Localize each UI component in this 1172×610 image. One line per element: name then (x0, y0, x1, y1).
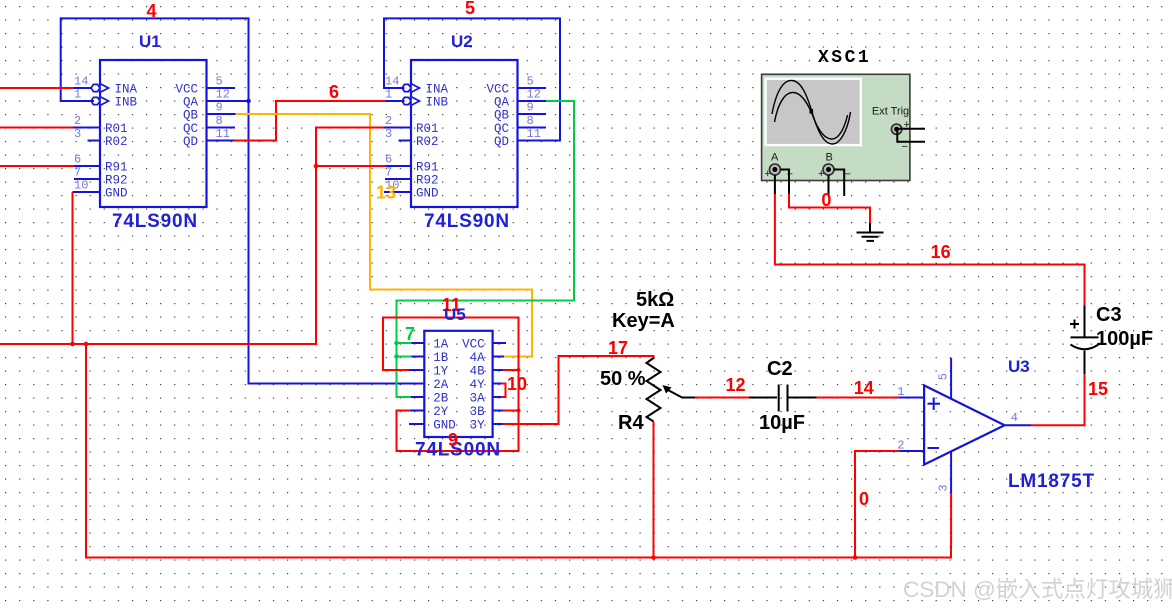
op-amp U3 pin 2 stub (897, 439, 924, 453)
net label 13 (376, 183, 396, 203)
svg-text:QD: QD (183, 135, 198, 149)
svg-text:74LS90N: 74LS90N (424, 211, 510, 232)
svg-text:C2: C2 (767, 358, 793, 380)
svg-text:11: 11 (216, 127, 230, 141)
svg-text:4: 4 (1011, 411, 1018, 425)
svg-text:2B: 2B (433, 392, 449, 406)
svg-text:INB: INB (115, 96, 138, 110)
pin stubs U5 left (409, 343, 424, 424)
wire net 7 (green, U2 QA to U5 1A 1B 2B) (397, 101, 575, 397)
wire net 5 (U2 QD feedback to INA) (384, 18, 560, 140)
svg-text:3A: 3A (470, 392, 486, 406)
svg-text:R4: R4 (618, 412, 644, 434)
net label 17 (608, 338, 628, 358)
svg-text:0: 0 (821, 190, 831, 210)
watermark CSDN (903, 577, 1172, 602)
svg-text:16: 16 (931, 242, 951, 262)
svg-text:R01: R01 (105, 122, 128, 136)
svg-text:2Y: 2Y (433, 405, 449, 419)
svg-text:74LS90N: 74LS90N (112, 211, 198, 232)
svg-text:QA: QA (183, 96, 199, 110)
oscilloscope terminal B (818, 152, 851, 181)
value 50% of R4 (600, 368, 646, 390)
wire R4 bottom to ground rail (653, 422, 655, 558)
value 74LS90N of U1 (112, 211, 198, 232)
svg-text:C3: C3 (1096, 304, 1122, 326)
op-amp U3 triangle (924, 385, 1005, 464)
svg-text:14: 14 (854, 378, 874, 398)
wire to U1 R01 from left edge (0, 127, 73, 129)
svg-text:R02: R02 (416, 135, 439, 149)
wire net 13 (orange, U1 QB to U5 4A) (236, 114, 533, 357)
junction node U2 R91 branch (314, 164, 319, 169)
svg-text:Ext Trig: Ext Trig (872, 106, 909, 118)
svg-text:QB: QB (494, 109, 510, 123)
svg-text:3: 3 (385, 127, 392, 141)
svg-text:QA: QA (494, 96, 510, 110)
svg-text:6: 6 (329, 82, 339, 102)
value LM1875T of U3 (1008, 471, 1095, 492)
svg-text:2: 2 (74, 114, 81, 128)
potentiometer R4 wiper arrow (663, 385, 696, 398)
label U3 (1008, 357, 1030, 376)
net label 6 (329, 82, 339, 102)
junction nodes net 11 (517, 368, 521, 413)
svg-text:GND: GND (416, 187, 439, 201)
svg-text:1: 1 (385, 88, 392, 102)
svg-text:7: 7 (74, 166, 81, 180)
net label 10 (507, 374, 527, 394)
svg-text:4B: 4B (470, 365, 486, 379)
value 5kOhm of R4 (636, 289, 674, 311)
value 74LS00N of U5 (415, 440, 501, 461)
svg-text:VCC: VCC (175, 83, 198, 97)
svg-text:0: 0 (859, 489, 869, 509)
junction node net4 QA (246, 99, 251, 104)
svg-text:A: A (771, 152, 779, 164)
svg-text:3B: 3B (470, 405, 486, 419)
svg-text:4: 4 (147, 1, 157, 21)
wire scope B minus stub (834, 170, 844, 197)
wire scope B plus stub (828, 175, 830, 196)
wire net 10 (U5 4Y to 3A) (501, 384, 506, 398)
svg-text:+: + (818, 168, 824, 180)
op-amp U3 pin 4 stub (1005, 411, 1032, 425)
svg-text:50 %: 50 % (600, 368, 646, 390)
svg-text:U3: U3 (1008, 357, 1030, 376)
svg-text:B: B (826, 152, 833, 164)
net label 9 (448, 430, 458, 450)
svg-text:12: 12 (527, 88, 541, 102)
svg-text:9: 9 (448, 430, 458, 450)
net label 7 (405, 324, 415, 344)
label U2 (451, 32, 473, 51)
svg-text:9: 9 (527, 101, 534, 115)
svg-text:U5: U5 (444, 305, 466, 324)
svg-text:5: 5 (465, 0, 475, 18)
svg-text:11: 11 (527, 127, 541, 141)
op-amp U3 pin 5 stub (936, 358, 951, 399)
pin stubs U2 right (518, 88, 547, 128)
svg-text:U1: U1 (139, 32, 161, 51)
svg-text:8: 8 (527, 114, 534, 128)
wire net 11 (U5 1Y 4B 3B 2Y loop) (383, 318, 519, 452)
svg-text:9: 9 (216, 101, 223, 115)
label U5 (444, 305, 466, 324)
ground symbol (857, 223, 884, 241)
wire Ext Trig stubs (897, 129, 925, 142)
net label 12 (726, 375, 746, 395)
label XSC1 (818, 48, 871, 68)
label R4 (618, 412, 644, 434)
wire net 16 (scope A+ to C3 top) (775, 194, 1085, 305)
svg-text:Key=A: Key=A (612, 310, 675, 332)
junction nodes on rail (70, 342, 88, 347)
value 74LS90N of U2 (424, 211, 510, 232)
svg-text:GND: GND (105, 187, 128, 201)
net label 15 (1088, 379, 1108, 399)
wire net 6 (U1 QD to U2 INB) (234, 101, 405, 141)
svg-text:R02: R02 (105, 135, 128, 149)
svg-text:6: 6 (385, 153, 392, 167)
potentiometer R4 zigzag (647, 358, 661, 422)
svg-text:4A: 4A (470, 351, 486, 365)
value Key=A of R4 (612, 310, 675, 332)
wire scope A plus lead (774, 175, 776, 194)
svg-text:CSDN @嵌入式点灯攻城狮: CSDN @嵌入式点灯攻城狮 (903, 577, 1172, 602)
svg-text:12: 12 (726, 375, 746, 395)
net label 11 (442, 295, 461, 315)
op-amp U3 pin 1 stub (897, 385, 924, 399)
svg-text:10: 10 (74, 179, 88, 193)
svg-text:5: 5 (216, 75, 223, 89)
svg-text:100µF: 100µF (1096, 328, 1153, 350)
wire scope A minus to ground (781, 170, 871, 224)
junction node net 0 rail (853, 555, 858, 560)
junction node R4 bottom rail (651, 555, 656, 560)
svg-text:2: 2 (385, 114, 392, 128)
svg-text:R91: R91 (105, 161, 128, 175)
pin stubs U5 right (493, 343, 506, 424)
svg-text:+: + (765, 168, 771, 180)
svg-text:VCC: VCC (486, 83, 509, 97)
svg-text:XSC1: XSC1 (818, 48, 871, 68)
junction nodes net 7 (394, 341, 399, 359)
svg-text:13: 13 (376, 183, 396, 203)
svg-text:1A: 1A (433, 338, 449, 352)
wire net 14 (C2 to U3 pin1) (788, 397, 899, 399)
svg-text:INA: INA (115, 83, 138, 97)
wire net 12 (R4 wiper to C2) (695, 397, 777, 399)
svg-text:5: 5 (527, 75, 534, 89)
svg-text:R92: R92 (416, 174, 439, 188)
IC U1 74LS90N body (74, 60, 230, 207)
wire U1 GND to rail (72, 192, 74, 344)
svg-text:14: 14 (385, 75, 399, 89)
svg-text:R92: R92 (105, 174, 128, 188)
svg-text:INB: INB (426, 96, 449, 110)
svg-text:QC: QC (494, 122, 509, 136)
svg-text:QC: QC (183, 122, 198, 136)
oscilloscope Ext Trig terminal (872, 106, 910, 154)
value 10uF of C2 (759, 412, 805, 434)
wire reset rail to U2 R01/R91 (0, 128, 386, 345)
svg-text:U2: U2 (451, 32, 473, 51)
oscilloscope XSC1 body (762, 74, 910, 180)
label C2 (767, 358, 793, 380)
svg-text:2A: 2A (433, 378, 449, 392)
capacitor C2 (779, 385, 788, 412)
svg-text:LM1875T: LM1875T (1008, 471, 1095, 492)
wire net 4 (U1 QA feedback to INB and to U5 2A) (61, 18, 425, 383)
oscilloscope screen waveform (772, 80, 851, 144)
svg-text:1B: 1B (433, 351, 449, 365)
svg-text:1: 1 (897, 385, 904, 399)
svg-text:5: 5 (936, 373, 950, 380)
pin stubs U1 right (207, 88, 236, 141)
svg-text:10µF: 10µF (759, 412, 805, 434)
value 100uF of C3 (1096, 328, 1153, 350)
capacitor C3 polarized (1070, 305, 1099, 374)
IC U5 74LS00N body (424, 331, 492, 437)
svg-text:8: 8 (216, 114, 223, 128)
wire net 0 (U3 pin2 to ground rail) (855, 451, 899, 558)
svg-text:3Y: 3Y (470, 419, 486, 433)
net label 16 (931, 242, 951, 262)
svg-text:5kΩ: 5kΩ (636, 289, 674, 311)
net label 0 at scope (821, 190, 831, 210)
pin stubs U1 left (73, 88, 101, 192)
svg-text:15: 15 (1088, 379, 1108, 399)
svg-text:QB: QB (183, 109, 199, 123)
svg-text:1: 1 (74, 88, 81, 102)
svg-text:QD: QD (494, 135, 509, 149)
wire net 15 (U3 out to C3) (1032, 374, 1085, 425)
svg-text:−: − (845, 169, 851, 181)
svg-text:3: 3 (74, 127, 81, 141)
net label 14 (854, 378, 874, 398)
oscilloscope terminal A (765, 152, 793, 181)
label C3 (1096, 304, 1122, 326)
IC U2 74LS90N body (385, 60, 541, 207)
svg-text:R01: R01 (416, 122, 439, 136)
net label 4 (147, 1, 157, 21)
svg-text:3: 3 (936, 484, 950, 491)
label U1 (139, 32, 161, 51)
svg-text:17: 17 (608, 338, 628, 358)
svg-text:1Y: 1Y (433, 365, 449, 379)
op-amp U3 pin 3 stub (936, 452, 951, 493)
svg-text:10: 10 (507, 374, 527, 394)
svg-text:7: 7 (405, 324, 415, 344)
wire U3 pin3 to ground rail (950, 493, 952, 546)
wire to U1 R91 from left edge (0, 165, 74, 167)
net label 5 (465, 0, 475, 18)
svg-text:4Y: 4Y (470, 378, 486, 392)
svg-text:12: 12 (216, 88, 230, 102)
wire ground rail to bottom (86, 344, 951, 558)
svg-text:6: 6 (74, 153, 81, 167)
svg-text:R91: R91 (416, 161, 439, 175)
svg-text:14: 14 (74, 75, 88, 89)
wire to U1 INA from left edge (0, 87, 74, 89)
wire net 9 / 17 (U5 3Y to R4 top) (503, 356, 654, 424)
svg-text:VCC: VCC (462, 338, 485, 352)
pin stubs U2 left (384, 128, 411, 193)
svg-text:7: 7 (385, 166, 392, 180)
svg-text:INA: INA (426, 83, 449, 97)
net label 0 at U3 (859, 489, 869, 509)
